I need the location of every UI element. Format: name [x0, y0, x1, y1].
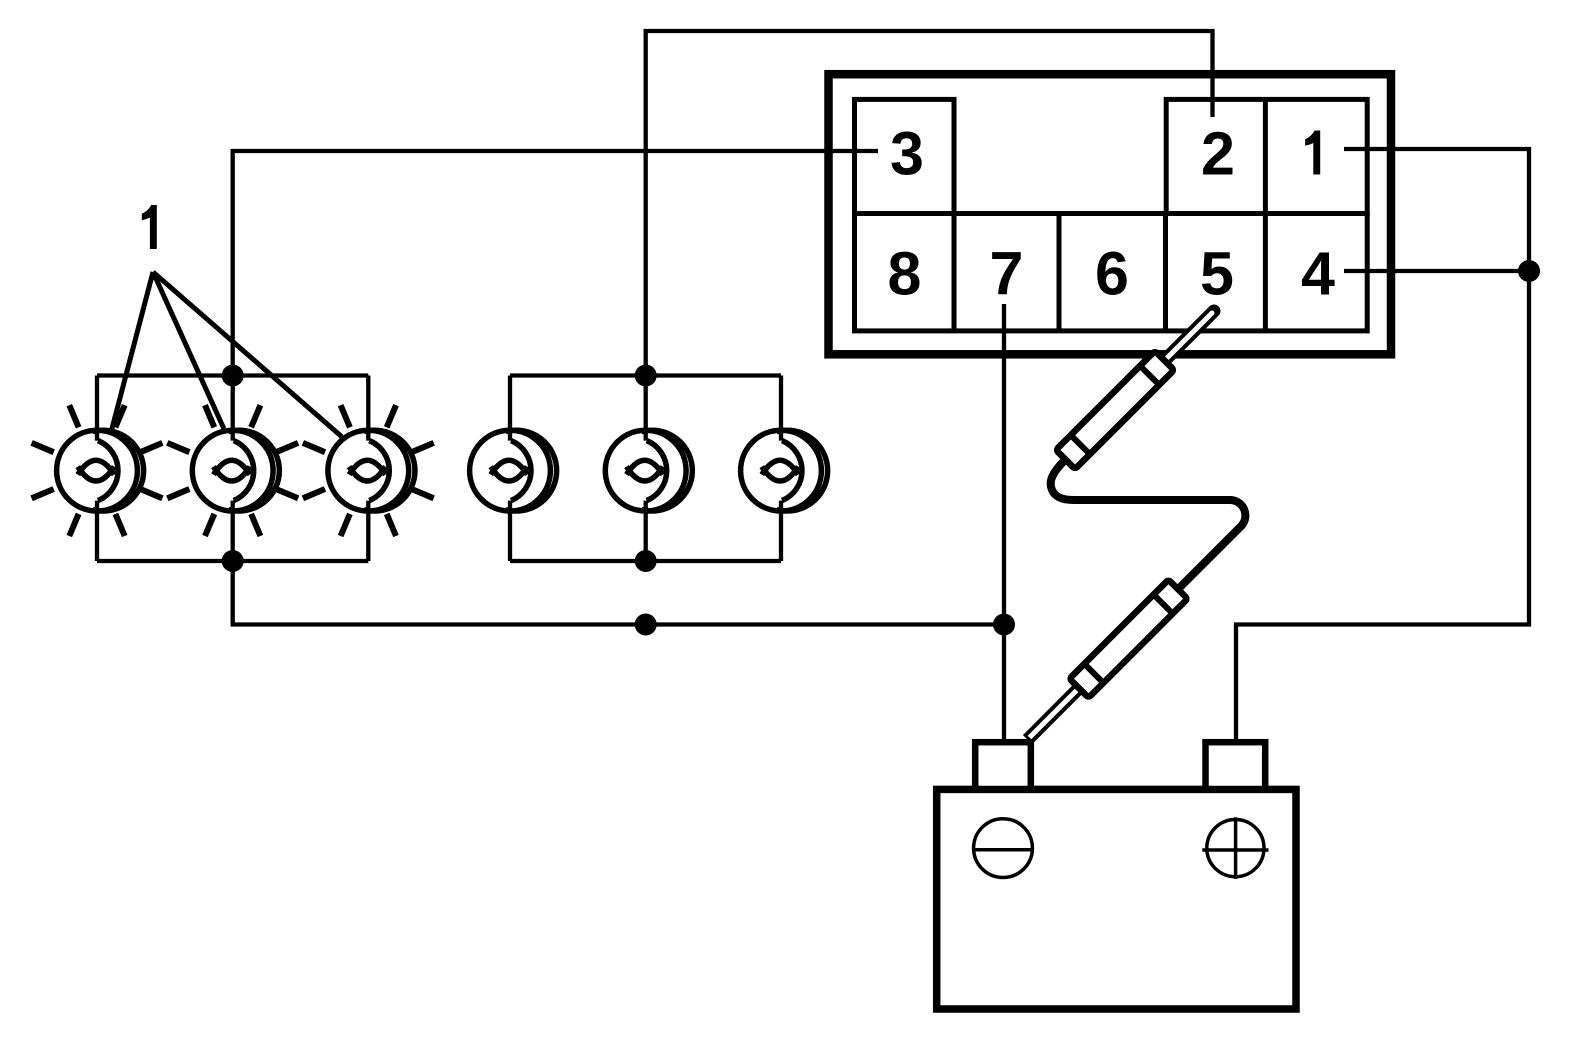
lamp E5 filament lens	[627, 460, 663, 481]
connector bottom cavity row (cells 8-4)	[855, 214, 1368, 331]
lamp E3 bulb outline	[328, 430, 409, 511]
lamp E2 upper wire stub	[231, 376, 235, 441]
ground bus wire from left lamp group to pin 7 wire	[233, 561, 1004, 625]
svg-text:5: 5	[1200, 240, 1234, 308]
divider between cells 2 and 1	[1263, 99, 1268, 213]
connector C1 outer housing	[829, 74, 1392, 354]
lamp E4 lower wire stub	[508, 501, 512, 561]
lamp E4 filament lens	[491, 460, 527, 481]
lamp E1 illumination rays	[32, 405, 163, 536]
middle lamp group top bus wire	[510, 373, 781, 377]
fusible link splice sleeve 1	[1056, 351, 1174, 469]
label 1 (lamps callout)	[142, 205, 157, 249]
lamp E1 bulb outline	[57, 430, 138, 511]
lamp E1 upper wire stub	[95, 376, 99, 441]
lamp E5 offset bulb arc	[641, 430, 692, 511]
leader lines from label 1 to the three lamps	[112, 272, 342, 437]
left lamp group bottom bus wire	[97, 559, 368, 563]
lamp E1 inner filament arc	[98, 441, 118, 501]
connector cavity cells 2-1	[1166, 99, 1367, 213]
battery positive post	[1206, 742, 1266, 789]
lamp E3 filament lens	[349, 460, 385, 481]
connector cavity cell 3	[855, 99, 955, 213]
svg-text:2: 2	[1201, 120, 1235, 188]
lamp E1 offset bulb arc	[93, 430, 144, 511]
fusible link: cable from pin 5 (core)	[1166, 313, 1212, 359]
junction dot bus / pin 7 wire	[993, 614, 1015, 636]
lamp E3 offset bulb arc	[364, 430, 415, 511]
lamp E4 offset bulb arc	[506, 430, 557, 511]
junction dot pin 4 / pin 1 wire	[1518, 260, 1540, 282]
lamp E2 bulb outline	[192, 430, 273, 511]
lamp E1 lower wire stub	[95, 501, 99, 561]
fusible link: cable from pin 5 (outer)	[1163, 311, 1214, 362]
lamp E6 inner filament arc	[782, 441, 802, 501]
lamp E6 offset bulb arc	[777, 430, 828, 511]
lamp E5 upper wire stub	[644, 376, 648, 441]
dividers between cells 8,7,6,5,4	[954, 214, 1265, 331]
lamp E6 lower wire stub	[779, 501, 783, 561]
lamp E4 upper wire stub	[508, 376, 512, 441]
svg-text:6: 6	[1095, 240, 1129, 308]
battery case	[937, 789, 1296, 1009]
svg-text:4: 4	[1301, 240, 1335, 308]
junction dot middle group top	[635, 365, 657, 387]
junction dot left group bottom	[222, 550, 244, 572]
lamp E6 upper wire stub	[779, 376, 783, 441]
svg-text:3: 3	[890, 120, 924, 188]
wire: connector pin 3 to left lamp group	[233, 151, 878, 376]
junction dot left group top	[222, 365, 244, 387]
middle lamp group bottom bus wire	[510, 559, 781, 563]
lamp E2 offset bulb arc	[228, 430, 279, 511]
wire: connector pin 1 to battery positive post	[1236, 149, 1529, 742]
fusible link: cable to battery (core)	[1030, 688, 1080, 738]
battery positive terminal symbol	[1202, 817, 1268, 879]
wire: connector pin 2 to middle lamp group	[646, 31, 1213, 376]
lamp E5 bulb outline	[605, 430, 686, 511]
lamp E5 inner filament arc	[647, 441, 667, 501]
wire: connector pin 4 stub	[1344, 269, 1529, 273]
lamp E4 bulb outline	[470, 430, 551, 511]
lamp E3 inner filament arc	[369, 441, 389, 501]
pin number 1	[1305, 131, 1320, 175]
lamp E6 bulb outline	[741, 430, 822, 511]
battery negative post	[975, 742, 1031, 789]
junction dot bus / middle group	[635, 614, 657, 636]
lamp E3 illumination rays	[303, 405, 434, 536]
lamp E2 lower wire stub	[231, 501, 235, 561]
lamp E3 upper wire stub	[366, 376, 370, 441]
fusible link splice sleeve 2	[1069, 580, 1187, 698]
lamp E5 lower wire stub	[644, 501, 648, 561]
left lamp group top bus wire	[97, 373, 368, 377]
battery negative terminal symbol	[972, 819, 1034, 878]
lamp E2 illumination rays	[167, 405, 298, 536]
svg-text:7: 7	[990, 240, 1024, 308]
svg-text:8: 8	[888, 240, 922, 308]
fusible link: middle jumper wire	[1051, 456, 1246, 591]
lamp E4 inner filament arc	[511, 441, 531, 501]
wire: connector pin 7 to battery negative post	[1002, 304, 1006, 742]
lamp E2 filament lens	[214, 460, 250, 481]
lamp E2 inner filament arc	[234, 441, 254, 501]
lamp E3 lower wire stub	[366, 501, 370, 561]
junction dot middle group bottom	[635, 550, 657, 572]
lamp E6 filament lens	[762, 460, 798, 481]
lamp E1 filament lens	[78, 460, 114, 481]
fusible link: cable to battery (outer)	[1028, 684, 1084, 740]
